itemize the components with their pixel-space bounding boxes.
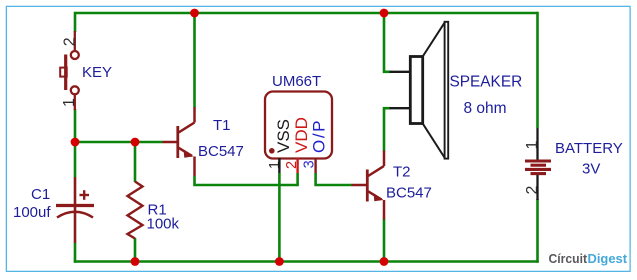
svg-text:SPEAKER: SPEAKER (450, 74, 523, 91)
svg-text:BATTERY: BATTERY (555, 140, 623, 157)
wire VDD pin drop (296, 173, 299, 186)
switch KEY (60, 31, 79, 110)
wire T2 collector to speaker (383, 108, 386, 151)
wire bottom rail (74, 260, 539, 263)
svg-text:KEY: KEY (82, 64, 112, 81)
svg-text:C1: C1 (31, 186, 50, 203)
junction node R1 bottom (131, 257, 140, 266)
svg-text:100uf: 100uf (13, 204, 51, 221)
svg-text:3V: 3V (582, 161, 600, 178)
wire node to C1 (74, 142, 77, 177)
svg-text:VSS: VSS (274, 119, 293, 153)
wire top rail (75, 12, 538, 15)
svg-text:Digest: Digest (588, 251, 628, 266)
wire battery bottom drop (536, 199, 539, 263)
svg-text:BC547: BC547 (386, 185, 432, 202)
transistor T1 (163, 107, 195, 176)
wire base net horizontal (75, 141, 163, 144)
pin VSS stub (278, 158, 280, 173)
junction node T1 collector / rail (190, 9, 199, 18)
wire T1 emitter to VDD (195, 176, 298, 185)
wire battery top drop (536, 12, 539, 128)
svg-text:T1: T1 (213, 117, 231, 134)
junction node T2 emitter ground (380, 257, 389, 266)
wire speaker top (384, 12, 391, 72)
wire key top (74, 12, 77, 32)
svg-text:T2: T2 (393, 164, 411, 181)
svg-text:Círcuit: Círcuit (549, 251, 588, 266)
speaker terminal stub top (390, 71, 411, 73)
resistor R1 (128, 182, 143, 239)
junction node VSS ground (275, 257, 284, 266)
speaker terminal stub bottom (390, 107, 411, 109)
svg-text:1: 1 (524, 141, 541, 150)
capacitor C1 (56, 177, 94, 243)
speaker cone diagonal bottom (423, 124, 445, 159)
junction node R1 top (131, 138, 140, 147)
wire key bottom to node (74, 109, 77, 142)
svg-text:BC547: BC547 (198, 143, 244, 160)
wire VSS to ground rail (278, 173, 281, 262)
wire R1 top (134, 142, 137, 182)
wire T2 emitter to ground (383, 219, 386, 262)
pin-1 marker dot (269, 148, 275, 154)
pin VDD stub (296, 158, 298, 173)
pin O/P stub (314, 158, 316, 173)
wire speaker bottom stub (383, 107, 391, 110)
svg-text:2: 2 (284, 161, 300, 169)
battery BAT (536, 128, 538, 160)
speaker driver box (410, 57, 422, 124)
wire C1 bottom (74, 243, 77, 263)
wire R1 bottom (134, 238, 137, 262)
svg-text:O/P: O/P (310, 119, 329, 153)
wire T1 collector to rail (193, 13, 196, 108)
transistor T2 (352, 151, 385, 220)
speaker cone front panel (445, 22, 449, 159)
svg-text:1: 1 (61, 98, 78, 107)
svg-text:3: 3 (302, 160, 318, 168)
svg-text:UM66T: UM66T (272, 73, 321, 90)
svg-text:100k: 100k (147, 216, 180, 233)
IC UM66T body (265, 92, 332, 159)
svg-text:1: 1 (267, 161, 283, 169)
svg-text:2: 2 (61, 37, 78, 46)
wire O/P to T2 base (316, 173, 352, 185)
svg-text:8 ohm: 8 ohm (464, 100, 507, 117)
svg-text:2: 2 (524, 186, 541, 195)
svg-text:VDD: VDD (292, 117, 311, 153)
junction node KEY / C1 / base net (71, 138, 80, 147)
junction node speaker / rail (380, 9, 389, 18)
speaker cone diagonal top (423, 22, 445, 56)
